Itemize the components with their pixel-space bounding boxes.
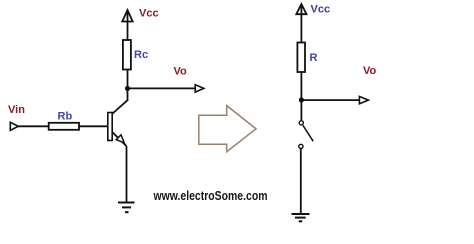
svg-text:Vin: Vin — [8, 104, 25, 116]
svg-text:Vo: Vo — [174, 66, 188, 78]
svg-text:R: R — [310, 52, 318, 64]
svg-text:Vo: Vo — [363, 65, 377, 77]
svg-text:www.electroSome.com: www.electroSome.com — [153, 188, 268, 203]
svg-text:Rb: Rb — [58, 111, 73, 123]
svg-text:Rc: Rc — [134, 49, 148, 61]
svg-text:Vcc: Vcc — [311, 4, 331, 16]
svg-text:Vcc: Vcc — [139, 8, 159, 20]
